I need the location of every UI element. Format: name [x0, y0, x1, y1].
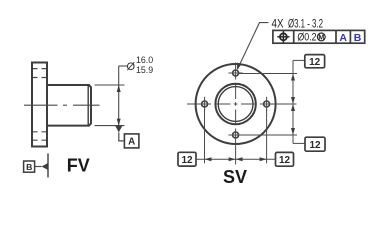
extension line bottom hole — [239, 134, 297, 136]
extension line cylinder bottom — [95, 125, 125, 127]
hole north — [233, 70, 239, 76]
cylinder boss front-view outline — [47, 85, 91, 126]
basic dim box bottom left — [178, 152, 196, 166]
leader from hole note — [238, 23, 269, 69]
hole north tick — [228, 72, 242, 74]
right dimension line — [292, 60, 294, 143]
flange circle side-view — [196, 64, 276, 144]
hole east — [264, 101, 270, 107]
hidden line bottom hole lower — [33, 139, 46, 141]
datum B stem — [35, 166, 42, 168]
svg-text:4X: 4X — [272, 18, 284, 30]
svg-text:12: 12 — [279, 155, 291, 166]
basic dim box bottom right — [276, 152, 294, 166]
right dim arrow up at center — [291, 104, 295, 111]
basic dim box mid right — [305, 137, 325, 151]
svg-text:12: 12 — [309, 57, 321, 68]
bottom dimension line — [196, 158, 276, 160]
hidden line top hole lower — [33, 77, 46, 79]
dimension line diameter 16 — [118, 66, 120, 126]
flange front-view outline — [32, 63, 47, 147]
right dim arrow down at bottom hole — [291, 128, 295, 135]
FV centerline — [24, 104, 100, 106]
svg-text:12: 12 — [309, 140, 321, 151]
svg-text:Ø0.2: Ø0.2 — [297, 32, 316, 44]
hole west — [202, 101, 208, 107]
hole south — [233, 132, 239, 138]
datum A stem — [119, 132, 125, 141]
leader arrowhead — [237, 63, 242, 71]
datum B extension line — [47, 154, 49, 178]
extension line top hole — [239, 73, 297, 75]
extension line east hole — [266, 109, 268, 163]
right dim arrow down at center — [291, 97, 295, 104]
datum B triangle — [42, 163, 49, 170]
svg-text:16.0: 16.0 — [136, 55, 153, 65]
hidden line bottom hole upper — [33, 131, 46, 133]
hidden line top hole upper — [33, 68, 46, 70]
bottom dim arrow left at west — [205, 157, 212, 161]
svg-text:M: M — [318, 35, 324, 42]
MMC modifier circle — [317, 33, 325, 41]
feature control frame outline — [273, 30, 365, 43]
elbow to mid 12 box — [293, 142, 305, 144]
position symbol cross horizontal — [277, 36, 289, 38]
svg-text:A: A — [339, 32, 347, 44]
FCF divider 2 — [335, 30, 337, 43]
hole south tick — [228, 134, 242, 136]
cylinder chamfer line — [87, 85, 89, 125]
dim arrow down — [117, 119, 121, 126]
svg-text:12: 12 — [181, 155, 193, 166]
leader to diameter text — [119, 65, 127, 67]
hole west tick — [204, 97, 206, 111]
datum A triangle — [115, 126, 122, 132]
datum A box — [124, 134, 138, 148]
boss outer circle — [215, 84, 255, 124]
right dim arrow up at hole — [291, 74, 295, 81]
bottom dim arrow right at center — [229, 157, 236, 161]
svg-text:SV: SV — [223, 167, 247, 187]
position symbol cross vertical — [282, 31, 284, 43]
svg-text:Ø3.1 - 3.2: Ø3.1 - 3.2 — [288, 18, 323, 30]
bottom dim arrow right at east — [260, 157, 267, 161]
svg-text:A: A — [128, 137, 135, 148]
extension line cylinder top — [95, 84, 125, 86]
dim arrow up — [117, 85, 121, 92]
FCF divider 3 — [349, 30, 351, 43]
FCF divider 1 — [293, 30, 295, 43]
svg-text:Ø: Ø — [127, 61, 136, 73]
boss inner chamfer circle — [218, 87, 253, 122]
svg-text:B: B — [354, 32, 362, 44]
SV horizontal centerline — [187, 103, 297, 105]
elbow to top 12 box — [293, 59, 305, 61]
position symbol circle — [280, 33, 287, 40]
hole east tick — [266, 97, 268, 111]
svg-text:B: B — [26, 162, 32, 172]
extension line west hole — [204, 109, 206, 163]
datum B box — [24, 161, 35, 172]
SV vertical centerline — [235, 63, 237, 165]
svg-text:FV: FV — [67, 155, 90, 175]
basic dim box top right — [305, 55, 325, 68]
svg-text:15.9: 15.9 — [136, 65, 153, 75]
bottom dim arrow left at center — [236, 157, 243, 161]
